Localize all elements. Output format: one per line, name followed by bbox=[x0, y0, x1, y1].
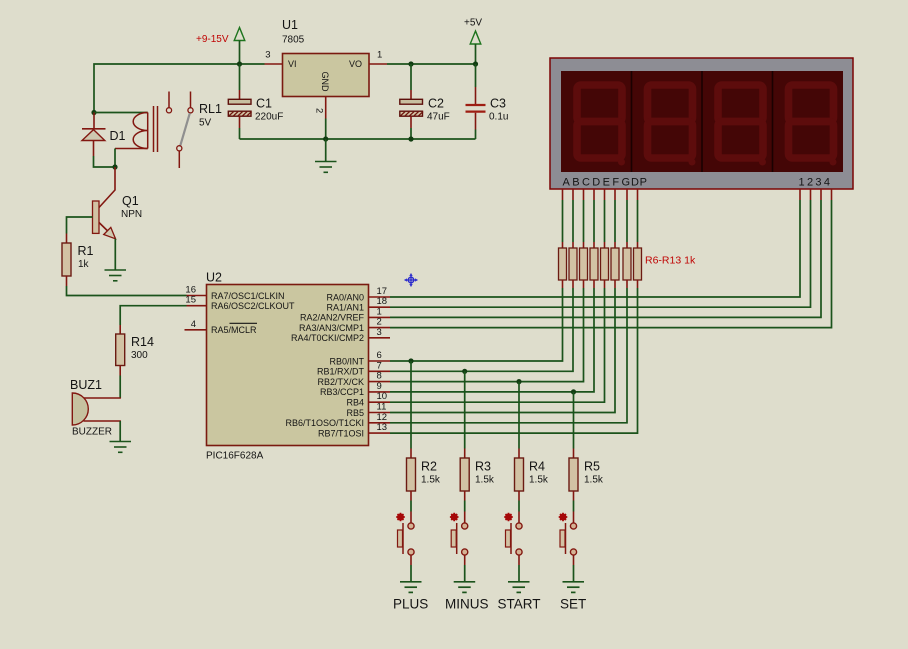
node junction C2 top bbox=[408, 61, 413, 66]
node junction RB3/R5 bbox=[571, 389, 576, 394]
wire R4 to button START bbox=[518, 501, 520, 512]
wire RB0 to R6 bbox=[390, 288, 563, 361]
svg-text:RB1/RX/DT: RB1/RX/DT bbox=[317, 367, 365, 377]
svg-text:Q1: Q1 bbox=[122, 194, 139, 208]
svg-text:220uF: 220uF bbox=[255, 112, 283, 123]
svg-text:R14: R14 bbox=[131, 335, 154, 349]
wire button PLUS to ground bbox=[410, 556, 412, 566]
digit 3 ghost bbox=[718, 85, 766, 166]
node junction +9-15V/C1 bbox=[237, 61, 242, 66]
transistor Q1 bbox=[93, 167, 143, 239]
wire pin15 to R14 bbox=[120, 306, 186, 325]
svg-text:GND: GND bbox=[320, 72, 330, 93]
svg-text:1k: 1k bbox=[78, 259, 90, 270]
svg-text:R3: R3 bbox=[475, 460, 491, 474]
regulator U1 7805 bbox=[282, 18, 369, 97]
display 7-segment 4-digit bbox=[550, 58, 853, 189]
pin 3 RA4/T0CKI/CMP2 bbox=[291, 327, 390, 343]
svg-text:RA2/AN2/VREF: RA2/AN2/VREF bbox=[300, 313, 365, 323]
wire diode to collector node bbox=[94, 156, 116, 167]
ground Q1 bbox=[105, 270, 127, 281]
wire RB0 down to R2 bbox=[410, 361, 412, 449]
wire RA2 to digit pin 3 bbox=[390, 200, 821, 317]
resistor R14 bbox=[116, 325, 154, 376]
pin 6 RB0/INT bbox=[329, 350, 390, 366]
button PLUS bbox=[396, 513, 414, 555]
ground BUZ1 bbox=[110, 442, 132, 453]
wire R1 to pin16 bbox=[67, 286, 187, 296]
wire button MINUS to ground bbox=[464, 556, 466, 566]
button START bbox=[504, 513, 522, 555]
resistor R1 bbox=[62, 234, 94, 287]
svg-text:RB2/TX/CK: RB2/TX/CK bbox=[317, 377, 364, 387]
node junction +5V/C3 bbox=[473, 61, 478, 66]
capacitor C3 bbox=[466, 64, 509, 139]
wire RB3 to R9 bbox=[390, 288, 594, 392]
diode D1 bbox=[82, 113, 126, 157]
svg-text:RL1: RL1 bbox=[199, 102, 222, 116]
resistor R5 bbox=[569, 449, 604, 501]
svg-text:+9-15V: +9-15V bbox=[196, 34, 229, 45]
svg-text:5V: 5V bbox=[199, 118, 212, 129]
wire RB6 to R12 bbox=[390, 288, 627, 423]
node junction diode/relay top bbox=[91, 110, 96, 115]
digit 2 ghost bbox=[648, 85, 696, 166]
ground U1 bbox=[315, 139, 337, 172]
digit 4 ghost bbox=[789, 85, 837, 166]
svg-text:BUZZER: BUZZER bbox=[72, 427, 112, 438]
svg-text:START: START bbox=[498, 597, 541, 612]
pin 3 U1 bbox=[265, 50, 283, 65]
svg-text:MINUS: MINUS bbox=[445, 597, 489, 612]
ground SET bbox=[563, 582, 585, 593]
wire segment F column bbox=[614, 200, 616, 242]
display pin stubs digits bbox=[800, 189, 832, 200]
svg-text:DP: DP bbox=[631, 177, 647, 189]
resistor R4 bbox=[515, 449, 549, 501]
wire segment DP column bbox=[637, 200, 639, 242]
display pin stubs segments bbox=[563, 189, 638, 200]
svg-text:RA7/OSC1/CLKIN: RA7/OSC1/CLKIN bbox=[211, 291, 285, 301]
pin 16 RA7/OSC1/CLKIN bbox=[185, 285, 284, 301]
pin 7 RB1/RX/DT bbox=[317, 360, 390, 376]
svg-text:3: 3 bbox=[377, 327, 382, 338]
wire RB1 down to R3 bbox=[464, 371, 466, 448]
wire R3 to button MINUS bbox=[464, 501, 466, 512]
wire R5 to button SET bbox=[573, 501, 575, 512]
wire R14 to buzzer top bbox=[119, 376, 121, 399]
svg-text:4: 4 bbox=[191, 319, 196, 330]
svg-text:RA3/AN3/CMP1: RA3/AN3/CMP1 bbox=[299, 323, 364, 333]
pin 2 RA3/AN3/CMP1 bbox=[299, 317, 390, 333]
svg-text:U1: U1 bbox=[282, 18, 298, 32]
svg-text:RB0/INT: RB0/INT bbox=[329, 356, 364, 366]
svg-text:PIC16F628A: PIC16F628A bbox=[206, 451, 264, 462]
wire segment B column bbox=[572, 200, 574, 242]
svg-text:VO: VO bbox=[349, 59, 362, 69]
svg-text:1.5k: 1.5k bbox=[475, 475, 495, 486]
svg-text:RA5/MCLR: RA5/MCLR bbox=[211, 325, 257, 335]
pin 1 U1 bbox=[369, 50, 387, 65]
svg-text:2: 2 bbox=[314, 108, 325, 113]
svg-text:RA6/OSC2/CLKOUT: RA6/OSC2/CLKOUT bbox=[211, 301, 295, 311]
node junction RB0/R2 bbox=[408, 358, 413, 363]
svg-text:3: 3 bbox=[265, 50, 270, 61]
wire VO to +5V column bbox=[387, 63, 476, 65]
wire button START to ground bbox=[518, 556, 520, 566]
wire button SET to ground bbox=[573, 556, 575, 566]
wire RB5 to R11 bbox=[390, 288, 615, 413]
svg-text:RB7/T1OSI: RB7/T1OSI bbox=[318, 428, 364, 438]
svg-text:RB5: RB5 bbox=[346, 408, 364, 418]
svg-text:300: 300 bbox=[131, 350, 148, 361]
wire relay coil bottom to node bbox=[114, 149, 116, 168]
wire base to R1 bbox=[67, 217, 93, 234]
ground START bbox=[508, 582, 530, 593]
pin 8 RB2/TX/CK bbox=[317, 371, 390, 387]
wire RB2 to R8 bbox=[390, 288, 584, 382]
svg-text:C2: C2 bbox=[428, 97, 444, 111]
pin 1 RA2/AN2/VREF bbox=[300, 306, 390, 322]
microcontroller U2 PIC16F628A bbox=[206, 271, 369, 462]
button SET bbox=[559, 513, 577, 555]
wire relay coil top bbox=[94, 112, 148, 114]
pin 12 RB6/T1OSO/T1CKI bbox=[285, 412, 390, 428]
node junction RB2/R4 bbox=[516, 379, 521, 384]
svg-text:RA1/AN1: RA1/AN1 bbox=[326, 303, 364, 313]
svg-text:NPN: NPN bbox=[121, 209, 142, 220]
svg-text:RB4: RB4 bbox=[346, 398, 364, 408]
wire buzzer bottom to ground bbox=[84, 420, 121, 422]
wire RB4 to R10 bbox=[390, 288, 605, 402]
digit 1 ghost bbox=[577, 85, 625, 166]
wire RB2 down to R4 bbox=[518, 382, 520, 449]
svg-text:RB6/T1OSO/T1CKI: RB6/T1OSO/T1CKI bbox=[285, 418, 364, 428]
svg-text:R4: R4 bbox=[529, 460, 545, 474]
wire segment C column bbox=[583, 200, 585, 242]
relay RL1 bbox=[115, 92, 222, 169]
ground PLUS bbox=[400, 582, 422, 593]
resistor R2 bbox=[407, 449, 441, 501]
capacitor C1 bbox=[228, 64, 283, 139]
svg-text:RA0/AN0: RA0/AN0 bbox=[326, 292, 364, 302]
resistor R3 bbox=[460, 449, 495, 501]
svg-text:R5: R5 bbox=[584, 460, 600, 474]
pin 11 RB5 bbox=[346, 402, 390, 418]
button MINUS bbox=[450, 513, 468, 555]
pin 15 RA6/OSC2/CLKOUT bbox=[185, 295, 295, 311]
wire RA1 to digit pin 2 bbox=[390, 200, 811, 307]
node junction collector bbox=[112, 164, 117, 169]
svg-text:RB3/CCP1: RB3/CCP1 bbox=[320, 387, 364, 397]
svg-text:1: 1 bbox=[377, 50, 382, 61]
wire RA3 to digit pin 4 bbox=[390, 200, 832, 328]
pin 13 RB7/T1OSI bbox=[318, 422, 390, 438]
power terminal +9-15V bbox=[196, 28, 245, 65]
marker origin blue bbox=[405, 274, 418, 287]
pin 9 RB3/CCP1 bbox=[320, 381, 390, 397]
svg-text:R1: R1 bbox=[78, 244, 94, 258]
buzzer BUZ1 bbox=[70, 378, 112, 438]
svg-text:1.5k: 1.5k bbox=[421, 475, 441, 486]
pin 4 RA5/MCLR bbox=[185, 319, 258, 335]
svg-text:1.5k: 1.5k bbox=[584, 475, 604, 486]
wire top rail left bbox=[94, 64, 265, 113]
resistor pack R6-R13 1k bbox=[559, 242, 696, 288]
svg-text:R2: R2 bbox=[421, 460, 437, 474]
pin 18 RA1/AN1 bbox=[326, 296, 390, 312]
power terminal +5V bbox=[464, 18, 482, 65]
svg-text:D1: D1 bbox=[110, 129, 126, 143]
wire ground rail bbox=[240, 138, 476, 140]
wire segment E column bbox=[604, 200, 606, 242]
wire RB3 down to R5 bbox=[573, 392, 575, 449]
pin 10 RB4 bbox=[346, 391, 390, 407]
svg-text:VI: VI bbox=[288, 59, 297, 69]
svg-text:SET: SET bbox=[560, 597, 586, 612]
node junction RB1/R3 bbox=[462, 369, 467, 374]
svg-text:15: 15 bbox=[185, 295, 196, 306]
pin 17 RA0/AN0 bbox=[326, 286, 390, 302]
svg-text:13: 13 bbox=[377, 422, 388, 433]
ground MINUS bbox=[454, 582, 476, 593]
svg-text:C3: C3 bbox=[490, 97, 506, 111]
wire segment D column bbox=[593, 200, 595, 242]
svg-text:47uF: 47uF bbox=[427, 112, 450, 123]
wire emitter down bbox=[114, 239, 116, 270]
svg-text:PLUS: PLUS bbox=[393, 597, 428, 612]
wire segment G column bbox=[626, 200, 628, 242]
svg-text:+5V: +5V bbox=[464, 18, 482, 29]
svg-text:R6-R13 1k: R6-R13 1k bbox=[645, 255, 696, 267]
svg-text:C1: C1 bbox=[256, 97, 272, 111]
capacitor C2 bbox=[400, 64, 450, 139]
svg-text:1.5k: 1.5k bbox=[529, 475, 549, 486]
svg-text:BUZ1: BUZ1 bbox=[70, 378, 102, 392]
node junction pin2/ground rail bbox=[323, 136, 328, 141]
wire segment A column bbox=[562, 200, 564, 242]
wire RA0 to digit pin 1 bbox=[390, 200, 800, 297]
svg-text:0.1u: 0.1u bbox=[489, 112, 508, 123]
svg-text:U2: U2 bbox=[206, 271, 222, 285]
pin 2 U1 bbox=[314, 97, 326, 140]
wire R2 to button PLUS bbox=[410, 501, 412, 512]
wire RB7 to R13 bbox=[390, 288, 638, 433]
wire RB1 to R7 bbox=[390, 288, 573, 371]
svg-text:7805: 7805 bbox=[282, 35, 305, 46]
node junction C2 bottom bbox=[408, 136, 413, 141]
svg-text:RA4/T0CKI/CMP2: RA4/T0CKI/CMP2 bbox=[291, 333, 364, 343]
